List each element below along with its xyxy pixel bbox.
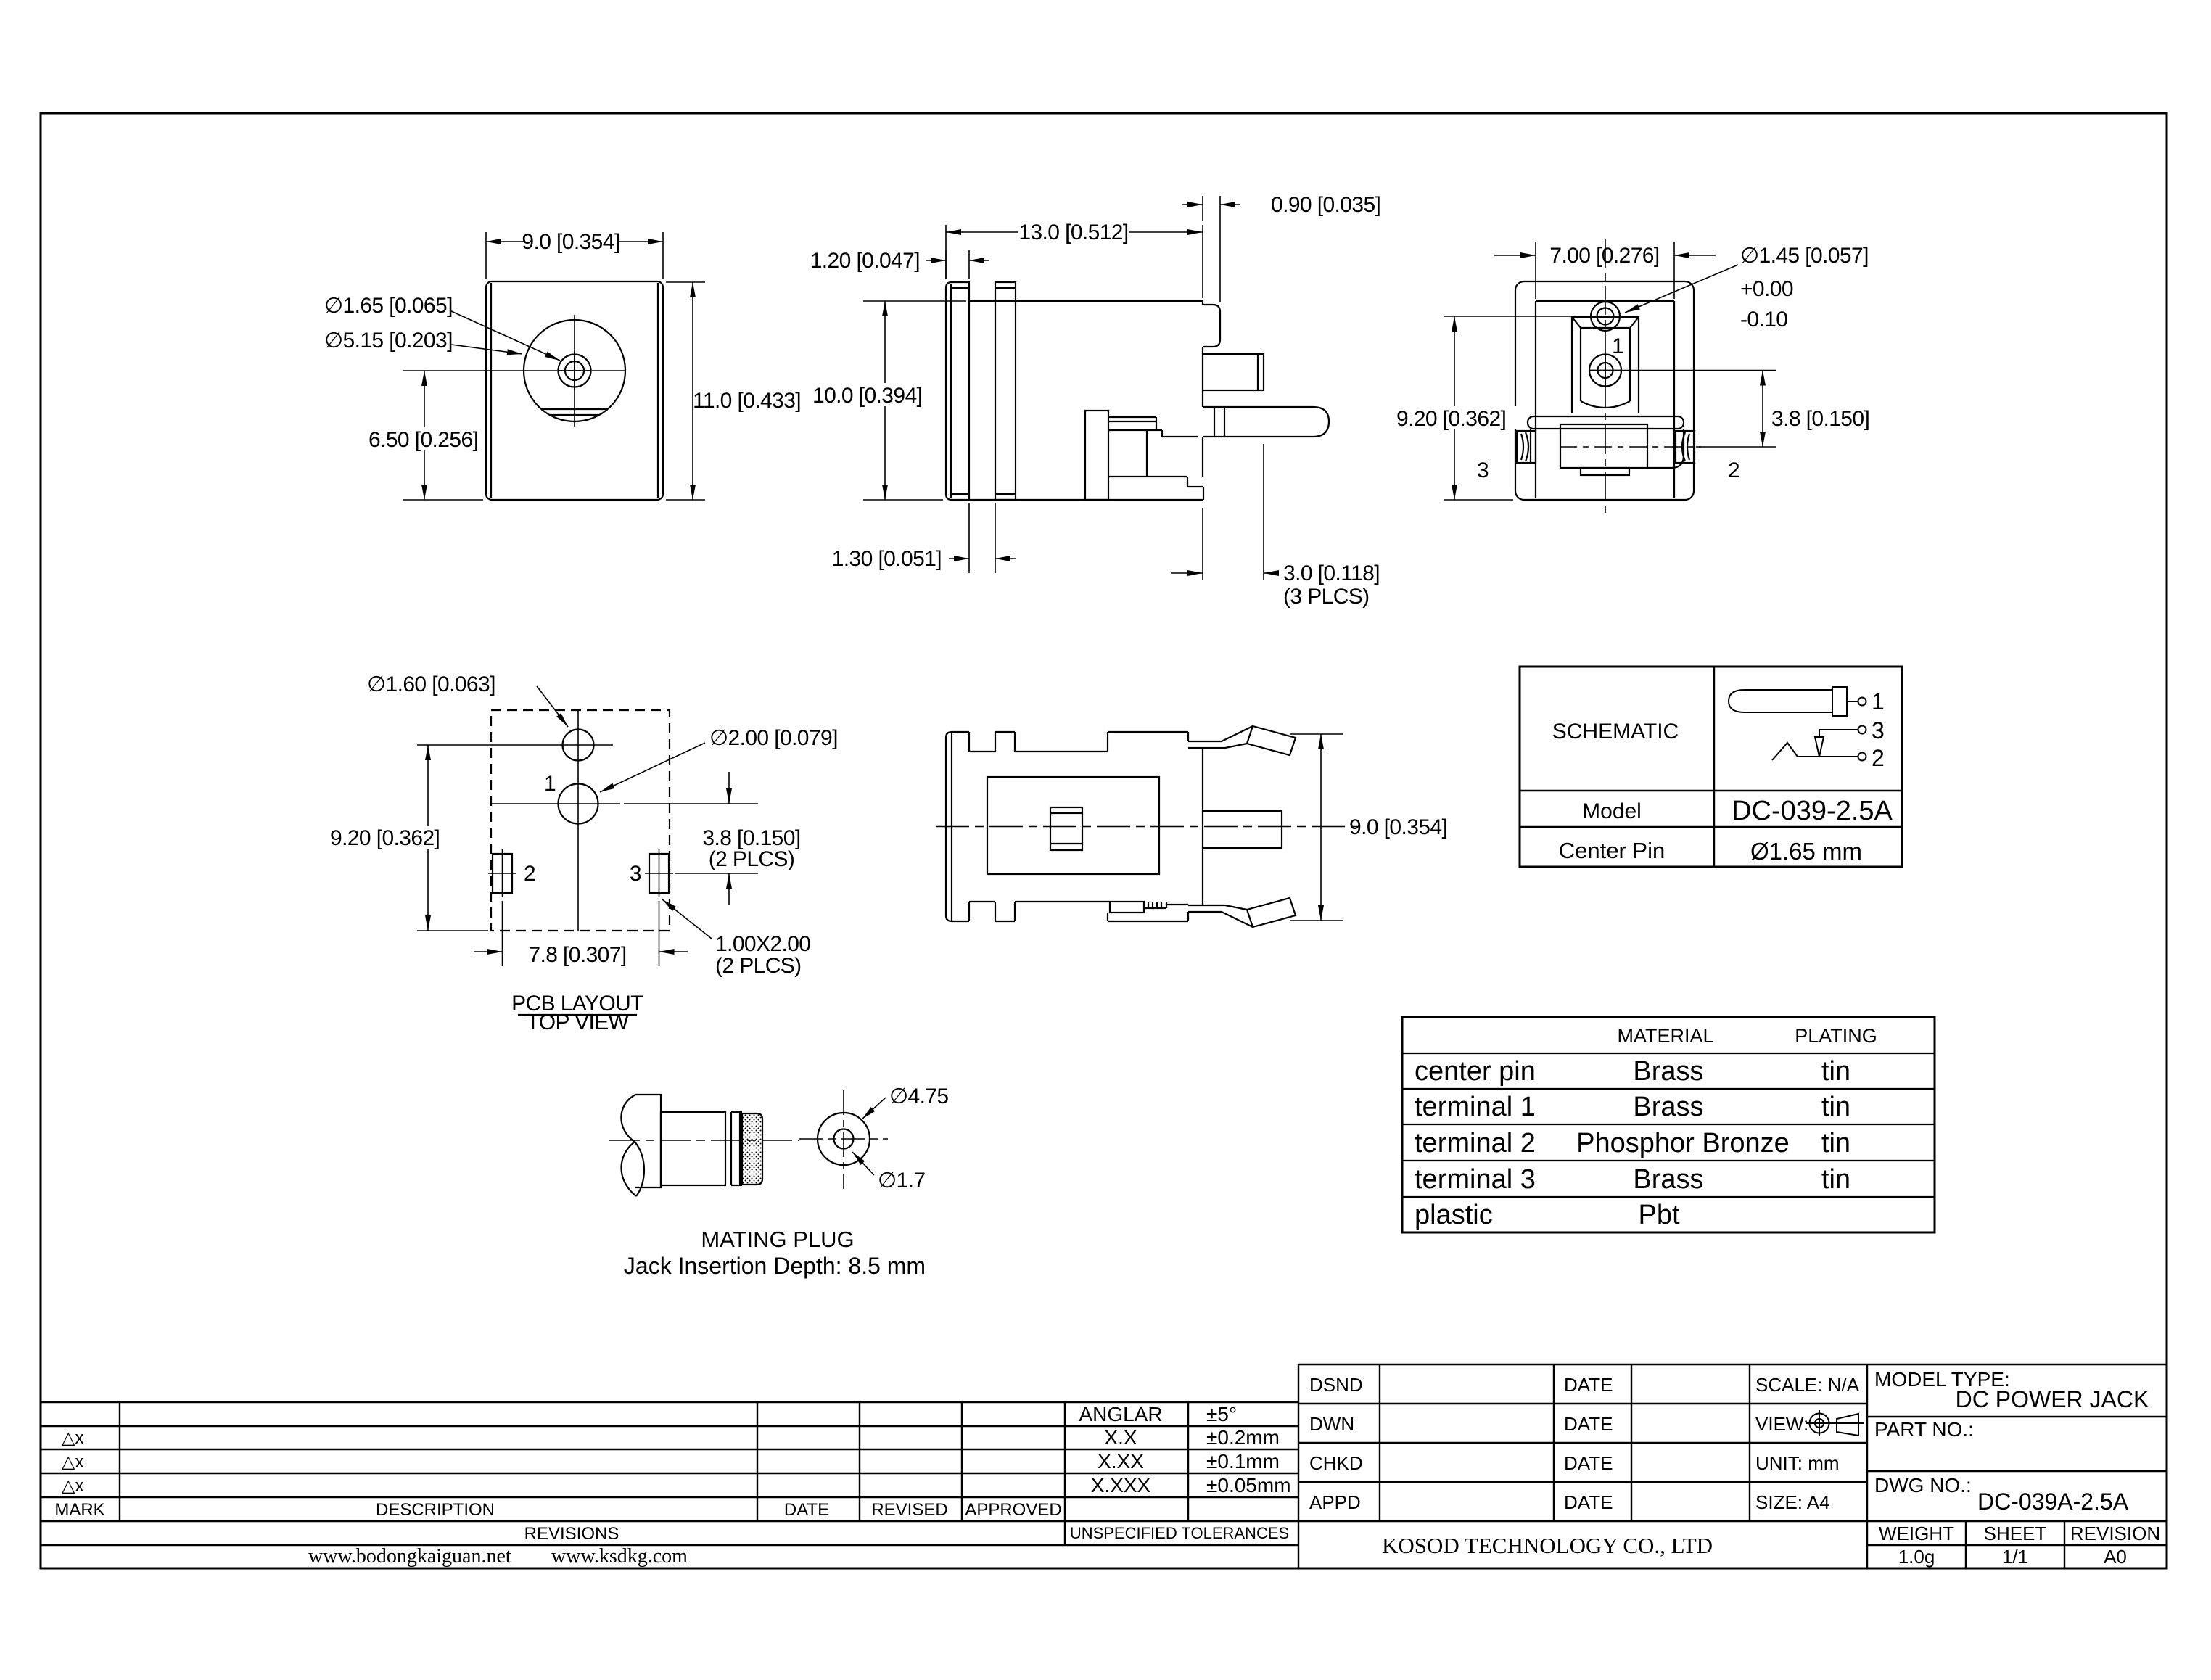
svg-text:center pin: center pin — [1415, 1056, 1536, 1087]
center pin needle — [1815, 737, 1824, 757]
svg-text:3: 3 — [1477, 458, 1489, 482]
spring contact zigzag — [1772, 743, 1798, 760]
svg-text:Ø1.65 mm: Ø1.65 mm — [1750, 838, 1862, 865]
svg-text:MARK: MARK — [54, 1500, 104, 1520]
svg-text:terminal 1: terminal 1 — [1415, 1092, 1536, 1122]
svg-text:CHKD: CHKD — [1309, 1452, 1363, 1474]
svg-text:REVISIONS: REVISIONS — [524, 1524, 619, 1544]
front view dimension texts — [324, 230, 801, 452]
svg-text:tin: tin — [1821, 1164, 1850, 1195]
svg-text:TOP VIEW: TOP VIEW — [527, 1010, 630, 1034]
dimension 11.0 [0.433] height — [666, 281, 705, 283]
svg-text:PLATING: PLATING — [1795, 1025, 1877, 1047]
pcb layout dimension texts — [328, 672, 838, 1034]
flange plate — [946, 732, 969, 921]
svg-text:REVISION: REVISION — [2070, 1523, 2160, 1544]
svg-text:SCALE: N/A: SCALE: N/A — [1755, 1374, 1860, 1396]
dimension 13.0 [0.512] — [945, 225, 947, 279]
svg-text:1.0g: 1.0g — [1898, 1546, 1935, 1568]
revisions and tolerance table texts — [54, 1403, 1290, 1568]
dimension 9.20 [0.362] pcb — [417, 930, 488, 931]
shield rectangle — [987, 777, 1159, 874]
terminal 2 pin (right) — [1676, 431, 1695, 463]
svg-text:WEIGHT: WEIGHT — [1879, 1523, 1954, 1544]
svg-text:DATE: DATE — [1564, 1452, 1613, 1474]
svg-text:SCHEMATIC: SCHEMATIC — [1552, 720, 1679, 744]
mating plug labels — [624, 1084, 949, 1279]
top edge steps — [968, 732, 970, 752]
svg-text:www.bodongkaiguan.net: www.bodongkaiguan.net — [308, 1545, 511, 1568]
schematic table texts — [1552, 688, 1893, 865]
svg-text:VIEW:: VIEW: — [1755, 1413, 1808, 1435]
svg-text:MATERIAL: MATERIAL — [1617, 1025, 1713, 1047]
bottom edge steps — [968, 902, 970, 921]
svg-text:terminal 2: terminal 2 — [1415, 1128, 1536, 1158]
pin 1 wire hole O1.45 — [1591, 302, 1620, 331]
plug barrel — [661, 1112, 725, 1185]
svg-text:+0.00: +0.00 — [1740, 277, 1793, 301]
svg-text:DC-039A-2.5A: DC-039A-2.5A — [1977, 1488, 2129, 1515]
pin 1 line and terminal — [1847, 701, 1858, 702]
svg-text:1: 1 — [1872, 688, 1885, 715]
leader O2.00 — [600, 743, 705, 792]
svg-text:9.20 [0.362]: 9.20 [0.362] — [1396, 407, 1506, 431]
svg-text:(2 PLCS): (2 PLCS) — [715, 954, 802, 978]
flange plate strip 2 — [995, 282, 1016, 500]
svg-text:6.50 [0.256]: 6.50 [0.256] — [368, 428, 478, 452]
svg-text:±0.05mm: ±0.05mm — [1206, 1474, 1291, 1496]
svg-text:7.8 [0.307]: 7.8 [0.307] — [528, 943, 626, 967]
svg-text:APPD: APPD — [1309, 1491, 1361, 1513]
svg-text:plastic: plastic — [1415, 1200, 1493, 1230]
end view crosshairs — [843, 1090, 844, 1189]
horizontal line through pin1 hole — [491, 803, 620, 804]
bottom block — [1109, 476, 1187, 477]
svg-text:DC-039-2.5A: DC-039-2.5A — [1732, 796, 1893, 826]
materials table texts — [1415, 1025, 1877, 1230]
dimension 7.00 [0.276] — [1535, 242, 1536, 299]
hole O1.60 — [563, 730, 594, 761]
svg-text:X.XXX: X.XXX — [1091, 1474, 1151, 1496]
svg-text:Model: Model — [1582, 799, 1642, 823]
centerline dash-dot — [936, 826, 1358, 828]
dimension 9.0 [0.354] width — [485, 232, 487, 279]
svg-text:1.00X2.00: 1.00X2.00 — [715, 932, 810, 956]
svg-text:DATE: DATE — [784, 1500, 829, 1520]
svg-text:DC POWER JACK: DC POWER JACK — [1956, 1386, 2149, 1412]
svg-text:7.00 [0.276]: 7.00 [0.276] — [1549, 244, 1659, 268]
svg-text:2: 2 — [524, 862, 535, 886]
plug centerline — [609, 1140, 799, 1141]
rear body outline — [1515, 281, 1694, 500]
horizontal line through top hole — [417, 744, 613, 746]
svg-text:△x: △x — [62, 1428, 83, 1448]
svg-text:PART NO.:: PART NO.: — [1874, 1418, 1974, 1441]
end view outer circle O4.75 — [818, 1113, 870, 1165]
svg-text:DATE: DATE — [1564, 1374, 1613, 1396]
svg-text:2: 2 — [1872, 745, 1885, 771]
svg-text:(3 PLCS): (3 PLCS) — [1283, 585, 1370, 609]
dimension 3.0 [0.118] (3 PLCS) — [1202, 508, 1203, 580]
svg-text:±0.1mm: ±0.1mm — [1206, 1450, 1280, 1473]
leader O1.45 — [1625, 265, 1738, 313]
svg-text:2: 2 — [1728, 458, 1739, 482]
svg-text:DATE: DATE — [1564, 1413, 1613, 1435]
terminal 3 serrated arm — [1110, 902, 1144, 913]
leader O4.75 — [862, 1098, 886, 1119]
pin 3 line and terminal — [1819, 730, 1858, 737]
rear view dimension texts — [1394, 244, 1869, 482]
svg-text:DWN: DWN — [1309, 1413, 1354, 1435]
lower spring bar — [1528, 416, 1684, 429]
pin 2 line and terminal — [1798, 756, 1858, 757]
svg-text:UNSPECIFIED TOLERANCES: UNSPECIFIED TOLERANCES — [1070, 1524, 1289, 1542]
dimension 9.20 [0.362] rear — [1444, 499, 1513, 501]
body bottom edge — [969, 499, 1203, 501]
svg-text:Brass: Brass — [1633, 1092, 1703, 1122]
wire bends — [1647, 429, 1684, 468]
terminal 1 pin (side) — [1203, 354, 1264, 390]
svg-text:Phosphor Bronze: Phosphor Bronze — [1576, 1128, 1790, 1158]
svg-text:Brass: Brass — [1633, 1056, 1703, 1087]
end view inner circle O1.7 — [834, 1129, 854, 1149]
body right edge — [1202, 301, 1203, 305]
svg-text:∅1.45 [0.057]: ∅1.45 [0.057] — [1740, 244, 1869, 268]
svg-text:X.XX: X.XX — [1098, 1450, 1144, 1473]
svg-text:APPROVED: APPROVED — [965, 1500, 1061, 1520]
svg-text:ANGLAR: ANGLAR — [1079, 1403, 1162, 1425]
vertical centerline — [577, 710, 579, 931]
body top edge — [969, 300, 1203, 302]
svg-text:DATE: DATE — [1564, 1491, 1613, 1513]
top view dimension text — [1349, 815, 1447, 839]
svg-text:DSND: DSND — [1309, 1374, 1363, 1396]
svg-text:REVISED: REVISED — [871, 1500, 947, 1520]
svg-text:∅1.7: ∅1.7 — [878, 1169, 925, 1193]
svg-text:(2 PLCS): (2 PLCS) — [709, 847, 795, 871]
dimension 3.8 [0.150] pcb — [624, 803, 758, 804]
dimension 6.50 [0.256] — [403, 499, 483, 501]
svg-text:Pbt: Pbt — [1638, 1200, 1679, 1230]
svg-text:1: 1 — [1612, 334, 1623, 358]
dimension 1.30 [0.051] — [968, 503, 970, 573]
front view body — [486, 281, 663, 500]
svg-text:terminal 3: terminal 3 — [1415, 1164, 1536, 1195]
terminal 3 pin (left) — [1517, 431, 1536, 463]
third angle projection symbol — [1806, 1410, 1864, 1436]
svg-text:△x: △x — [62, 1452, 83, 1472]
terminal 1 pin (top view) — [1203, 811, 1282, 848]
dimension 9.0 [0.354] top view — [1290, 733, 1343, 735]
dimension 10.0 [0.394] — [863, 300, 966, 302]
svg-text:www.ksdkg.com: www.ksdkg.com — [551, 1545, 688, 1568]
schematic symbol: tip contact block — [1832, 687, 1847, 716]
svg-text:MATING PLUG: MATING PLUG — [701, 1227, 854, 1252]
latch step details — [1108, 416, 1156, 418]
svg-text:1/1: 1/1 — [2002, 1546, 2028, 1568]
svg-text:1.30 [0.051]: 1.30 [0.051] — [832, 547, 942, 571]
svg-text:-0.10: -0.10 — [1740, 308, 1787, 332]
svg-text:△x: △x — [62, 1476, 83, 1496]
bottom tab — [1581, 468, 1629, 475]
svg-text:Brass: Brass — [1633, 1164, 1703, 1195]
svg-text:11.0 [0.433]: 11.0 [0.433] — [693, 389, 801, 413]
svg-text:∅1.60 [0.063]: ∅1.60 [0.063] — [367, 672, 495, 696]
pad 2 (left) — [493, 854, 512, 893]
svg-text:tin: tin — [1821, 1092, 1850, 1122]
front view centerlines — [403, 370, 625, 371]
svg-text:UNIT: mm: UNIT: mm — [1755, 1452, 1840, 1474]
leader O1.65 — [450, 310, 560, 361]
svg-text:9.0 [0.354]: 9.0 [0.354] — [522, 230, 619, 254]
center pin extension line — [1621, 370, 1776, 371]
pad 3 (right) — [649, 854, 669, 893]
center tower — [1572, 317, 1639, 413]
svg-text:3.0 [0.118]: 3.0 [0.118] — [1283, 561, 1380, 585]
top bent arm — [1188, 726, 1253, 741]
svg-text:X.X: X.X — [1104, 1426, 1137, 1449]
svg-text:DWG NO.:: DWG NO.: — [1874, 1474, 1972, 1496]
svg-text:9.20 [0.362]: 9.20 [0.362] — [330, 826, 440, 850]
dimension 7.8 [0.307] — [502, 901, 503, 966]
bottom bent arm — [1188, 912, 1253, 927]
svg-text:10.0 [0.394]: 10.0 [0.394] — [812, 384, 922, 408]
svg-text:tin: tin — [1821, 1056, 1850, 1087]
top boss tab — [1203, 305, 1220, 347]
svg-text:3: 3 — [1872, 717, 1885, 744]
rear inner cavity 7.00 wide — [1536, 300, 1674, 302]
svg-text:1: 1 — [544, 772, 556, 796]
side view dimension texts — [810, 193, 1381, 609]
svg-text:∅1.65 [0.065]: ∅1.65 [0.065] — [324, 294, 453, 318]
terminal 2 pin cylinder — [1203, 407, 1329, 437]
pin base square — [1050, 807, 1082, 850]
svg-text:0.90 [0.035]: 0.90 [0.035] — [1271, 193, 1380, 217]
front view bezel circle O5.15 — [524, 320, 625, 421]
svg-text:A0: A0 — [2104, 1546, 2127, 1568]
svg-text:KOSOD TECHNOLOGY CO., LTD: KOSOD TECHNOLOGY CO., LTD — [1382, 1533, 1713, 1558]
svg-text:9.0 [0.354]: 9.0 [0.354] — [1349, 815, 1447, 839]
svg-text:±5°: ±5° — [1206, 1403, 1237, 1425]
dimension 3.8 [0.150] rear — [1696, 446, 1776, 448]
svg-text:tin: tin — [1821, 1128, 1850, 1158]
schematic symbol: plug barrel — [1729, 690, 1832, 712]
svg-text:SHEET: SHEET — [1984, 1523, 2047, 1544]
plug handle — [635, 1095, 661, 1187]
leader 1.00X2.00 — [662, 899, 712, 939]
svg-text:SIZE: A4: SIZE: A4 — [1755, 1491, 1830, 1513]
leader O1.60 — [537, 686, 568, 727]
center pin — [1589, 355, 1621, 387]
svg-text:∅5.15 [0.203]: ∅5.15 [0.203] — [324, 329, 453, 353]
title block texts — [1309, 1368, 2160, 1568]
svg-text:13.0 [0.512]: 13.0 [0.512] — [1018, 221, 1128, 244]
dimension 1.20 [0.047] — [945, 250, 947, 279]
svg-text:Center Pin: Center Pin — [1559, 838, 1665, 863]
vertical centerline — [1605, 239, 1606, 515]
svg-text:3: 3 — [630, 862, 641, 886]
leader O1.7 — [852, 1152, 874, 1175]
leader O5.15 — [451, 345, 522, 354]
svg-text:1.20 [0.047]: 1.20 [0.047] — [810, 249, 920, 273]
dimension 0.90 [0.035] — [1202, 196, 1203, 221]
svg-text:±0.2mm: ±0.2mm — [1206, 1426, 1280, 1449]
terminal 3 vertical plate — [1085, 411, 1108, 500]
flange plate strip 1 — [946, 282, 969, 500]
svg-text:∅4.75: ∅4.75 — [889, 1084, 949, 1108]
svg-text:3.8 [0.150]: 3.8 [0.150] — [1771, 407, 1869, 431]
lower block — [1560, 424, 1647, 468]
knurled section — [742, 1113, 762, 1185]
svg-text:Jack Insertion Depth: 8.5 mm: Jack Insertion Depth: 8.5 mm — [624, 1253, 926, 1279]
hole O2.00 pin 1 — [559, 784, 598, 824]
hole centerline / 9.20 extension — [1444, 316, 1620, 317]
svg-text:DESCRIPTION: DESCRIPTION — [376, 1500, 495, 1520]
front view center pin O1.65 — [559, 355, 591, 387]
pcb outline dashed — [491, 710, 670, 931]
pins centerline dashed — [1560, 446, 1701, 448]
rings — [730, 1112, 732, 1185]
body right edge — [1187, 732, 1189, 741]
svg-text:∅2.00 [0.079]: ∅2.00 [0.079] — [709, 726, 838, 750]
